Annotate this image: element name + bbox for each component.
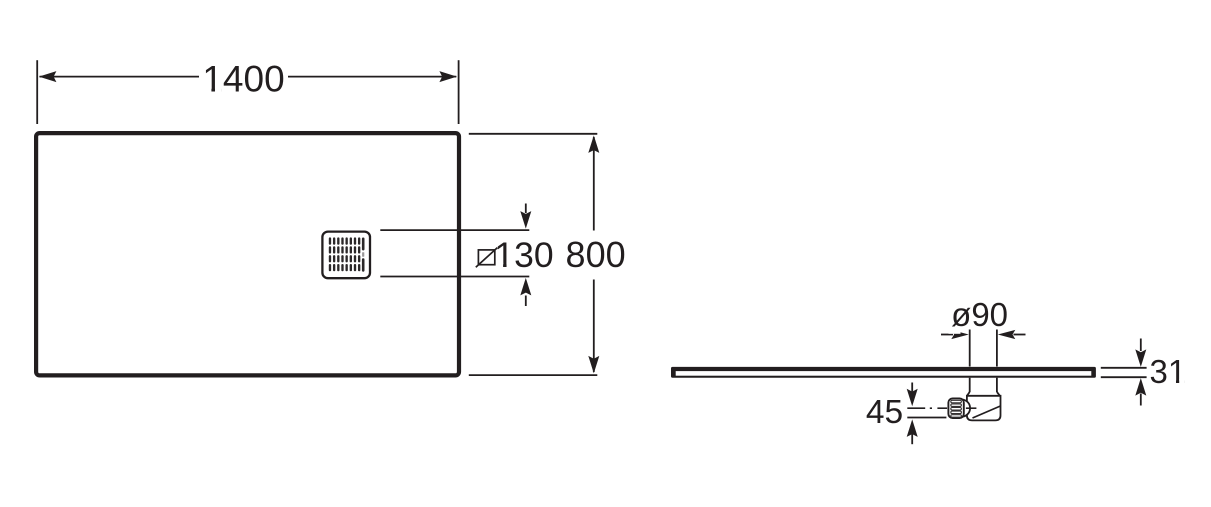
svg-text:800: 800 [566,234,626,275]
svg-text:1400: 1400 [202,59,284,100]
svg-text:45: 45 [866,394,903,431]
svg-text:31: 31 [1150,353,1187,390]
svg-text:130: 130 [494,235,553,275]
svg-text:ø90: ø90 [951,296,1008,333]
